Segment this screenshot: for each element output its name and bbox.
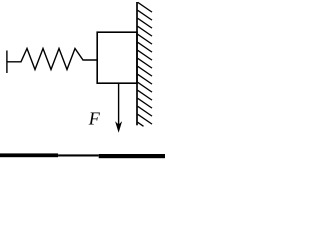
svg-text:F: F bbox=[88, 108, 101, 128]
